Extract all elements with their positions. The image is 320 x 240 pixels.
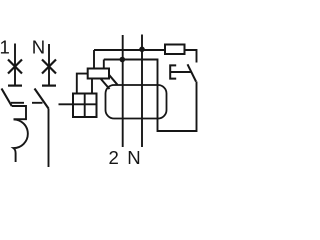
wire main line N through toroid xyxy=(141,35,143,148)
junction dot wire B on pole 1 line xyxy=(120,57,126,63)
toroid CT core xyxy=(106,85,167,119)
svg-text:1: 1 xyxy=(0,37,10,58)
wire pole-N outgoing lead xyxy=(48,109,50,168)
terminal tick pole 1 xyxy=(8,84,22,86)
mechanism box (test winding) xyxy=(73,94,97,118)
switch contact pole 1 xyxy=(2,89,12,107)
switch contact pole N xyxy=(35,89,49,109)
linkage relay to toroid double line xyxy=(101,75,118,89)
mech linkage dash 3 to mechanism xyxy=(59,103,74,105)
wire pole-1 incoming lead xyxy=(14,44,16,86)
mech linkage dash 2 xyxy=(32,102,43,104)
wire relay top terminal to wire A xyxy=(93,50,95,69)
mech linkage dash 1 xyxy=(11,102,24,104)
wire A relay to resistor xyxy=(94,49,165,51)
wire resistor to test switch xyxy=(185,50,197,63)
wire pole-1 step to coil arc xyxy=(12,106,26,119)
resistor R (test resistor) xyxy=(165,45,185,55)
coil half-turn pole 1 xyxy=(14,119,28,162)
relay U1 (trip relay box) xyxy=(88,69,109,79)
wire B relay to test loop xyxy=(104,60,197,132)
mechanism box horizontal divider xyxy=(73,103,97,105)
terminal tick pole N xyxy=(42,84,56,86)
test button actuator xyxy=(170,65,190,78)
terminal X pole 1 xyxy=(8,60,22,74)
terminal X pole N xyxy=(42,60,56,74)
wire mechanism to relay bottom xyxy=(91,79,93,94)
wire main line 2 through toroid xyxy=(122,35,124,147)
mechanism box vertical divider xyxy=(84,94,86,118)
wire mechanism to relay left xyxy=(77,74,88,94)
svg-text:N: N xyxy=(127,147,140,168)
svg-text:N: N xyxy=(32,37,45,58)
junction dot wire A on N line xyxy=(139,47,145,53)
wire relay top terminal to wire B xyxy=(103,60,105,69)
wire pole-N incoming lead xyxy=(48,44,50,86)
test switch contact blade xyxy=(188,64,197,81)
svg-text:2: 2 xyxy=(109,147,119,168)
